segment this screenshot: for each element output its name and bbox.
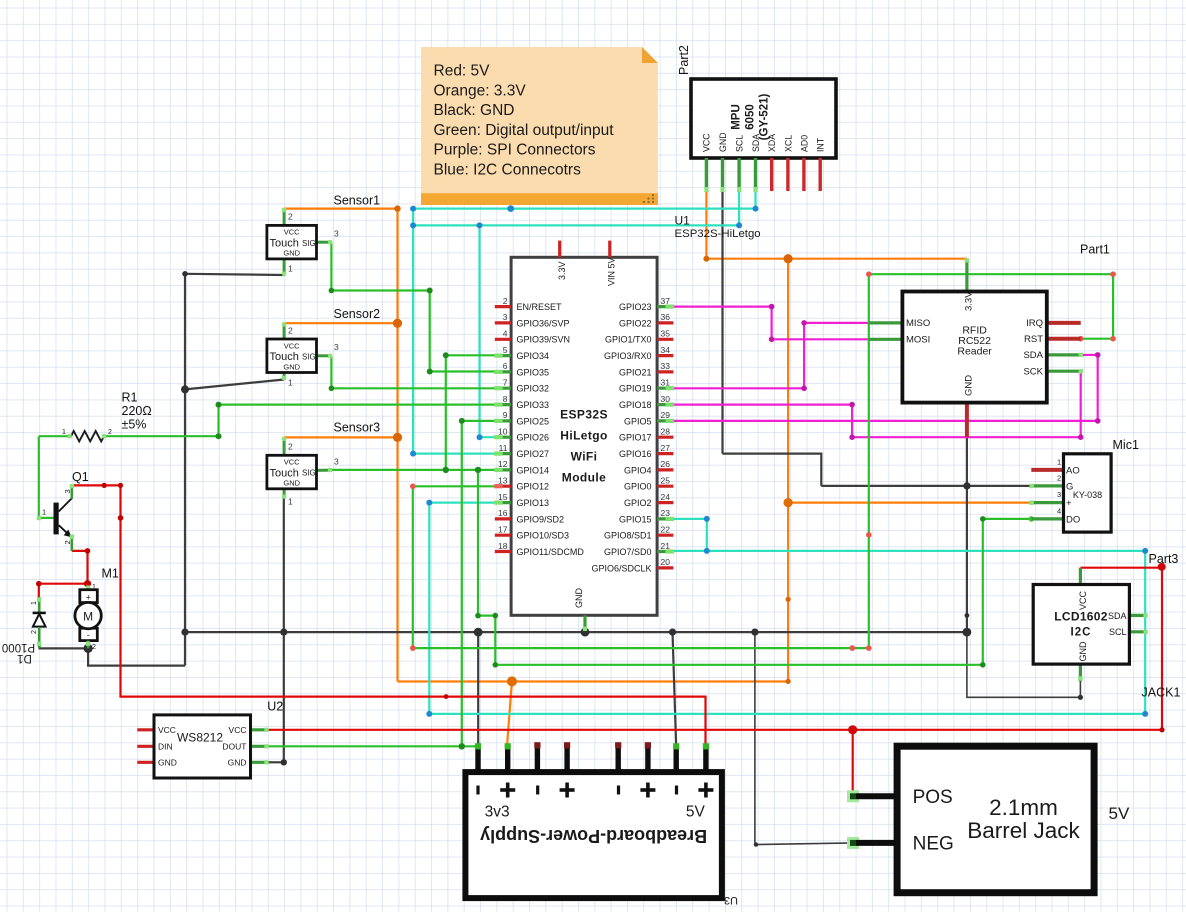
- svg-text:GPIO21: GPIO21: [619, 367, 652, 377]
- svg-text:GPIO9/SD2: GPIO9/SD2: [517, 514, 565, 524]
- svg-text:GPIO5: GPIO5: [624, 416, 652, 426]
- svg-text:33: 33: [661, 361, 671, 371]
- svg-text:P1000: P1000: [2, 641, 35, 653]
- svg-text:GPIO25: GPIO25: [517, 416, 550, 426]
- ESP32 title: [560, 408, 608, 485]
- wire black GND bus horizontal: [185, 631, 967, 633]
- wire green Mic DO vertical: [982, 519, 984, 665]
- part Mic1 KY-038: [1030, 454, 1112, 532]
- svg-text:SDA: SDA: [1023, 350, 1043, 361]
- svg-text:1: 1: [288, 378, 293, 388]
- svg-text:Green: Digital output/input: Green: Digital output/input: [434, 122, 615, 139]
- node cyan GPIO26 end: [477, 434, 483, 440]
- svg-text:8: 8: [503, 394, 508, 404]
- svg-text:Sensor2: Sensor2: [334, 307, 381, 321]
- svg-text:GND: GND: [158, 758, 177, 768]
- MPU title rotated: [731, 94, 771, 141]
- svg-text:D1: D1: [17, 652, 32, 664]
- wire green Sensor3 SIG row12: [331, 469, 496, 471]
- node black LCD gnd corner: [1078, 695, 1083, 700]
- svg-text:SCL: SCL: [1109, 627, 1127, 637]
- note sticky legend: [421, 47, 658, 205]
- svg-text:GPIO14: GPIO14: [517, 465, 550, 475]
- svg-text:ESP32S-HiLetgo: ESP32S-HiLetgo: [675, 228, 761, 240]
- node black bus junctions: [181, 629, 188, 636]
- wire orange Sensor3 VCC: [284, 436, 397, 438]
- wire black Sensor1 GND: [185, 274, 284, 275]
- node cyan H1 bends: [410, 206, 416, 212]
- svg-text:1: 1: [42, 508, 46, 517]
- svg-text:WS8212: WS8212: [177, 731, 223, 745]
- wire green RFID RST short: [1081, 338, 1113, 340]
- ESP32 right pins: [591, 296, 674, 574]
- svg-text:AO: AO: [1066, 465, 1080, 476]
- svg-text:Breadboard-Power-Supply: Breadboard-Power-Supply: [480, 826, 707, 846]
- svg-text:Red: 5V: Red: 5V: [434, 63, 491, 80]
- svg-text:GPIO35: GPIO35: [517, 367, 550, 377]
- wire green GPIO12 row13: [413, 485, 496, 487]
- MPU leg SDA pin4: [754, 158, 757, 191]
- svg-text:3.3V: 3.3V: [964, 291, 975, 311]
- svg-text:34: 34: [661, 345, 671, 355]
- node green R1 junction: [216, 402, 222, 408]
- wire green RST bottom horizontal: [413, 647, 869, 649]
- svg-text:SIG: SIG: [302, 239, 316, 248]
- svg-text:Black: GND: Black: GND: [434, 102, 515, 119]
- part MPU 6050 Part2: [691, 79, 836, 192]
- wire cyan H1 SDA horizontal: [413, 208, 755, 210]
- svg-text:31: 31: [661, 377, 671, 387]
- svg-text:Barrel Jack: Barrel Jack: [967, 818, 1080, 843]
- svg-text:2: 2: [288, 326, 293, 336]
- wire red WS8212 VCC long: [268, 729, 1162, 731]
- wire cyan row21 horizontal to LCD: [672, 550, 1145, 552]
- part Sensor1 touch: [267, 208, 339, 276]
- svg-text:5V: 5V: [1109, 804, 1130, 823]
- wire black Sensor3 GND down: [283, 499, 285, 763]
- svg-text:GPIO18: GPIO18: [619, 400, 652, 410]
- wire magenta jog down to MOSI row: [770, 307, 772, 340]
- svg-text:17: 17: [498, 524, 508, 534]
- svg-text:3: 3: [63, 489, 72, 493]
- wire red motor node to diode: [39, 584, 88, 600]
- wire cyan LCD right vertical: [1144, 551, 1146, 714]
- svg-text:2: 2: [63, 540, 72, 544]
- node red collector dots: [102, 483, 107, 488]
- svg-text:4: 4: [1057, 507, 1061, 516]
- wire magenta GPIO18 row30: [672, 404, 852, 406]
- svg-text:2: 2: [288, 212, 293, 222]
- wire magenta GPIO19 row31: [672, 387, 804, 389]
- svg-text:3: 3: [334, 229, 339, 239]
- svg-text:GND: GND: [283, 249, 300, 258]
- svg-text:MOSI: MOSI: [906, 335, 930, 346]
- svg-text:30: 30: [661, 394, 671, 404]
- svg-text:GPIO17: GPIO17: [619, 433, 652, 443]
- svg-text:±5%: ±5%: [122, 418, 147, 432]
- wire orange Sensor1 VCC: [284, 208, 397, 210]
- svg-text:GPIO32: GPIO32: [517, 384, 550, 394]
- svg-text:7: 7: [503, 377, 508, 387]
- node green sensor2 SIG bend: [329, 386, 335, 392]
- node magenta GPIO23 bend: [769, 304, 775, 310]
- wire cyan GPIO13 row: [429, 502, 496, 504]
- node cyan row21 junction: [704, 548, 710, 554]
- part LCD1602 I2C Part3: [1033, 568, 1148, 682]
- wire red jack POS drop: [852, 730, 854, 797]
- svg-text:SIG: SIG: [302, 469, 316, 478]
- wire green WS8212 DOUT row: [268, 745, 478, 747]
- svg-text:SCK: SCK: [1023, 367, 1043, 378]
- svg-text:U1: U1: [675, 214, 691, 228]
- svg-text:29: 29: [661, 410, 671, 420]
- svg-text:DIN: DIN: [158, 742, 173, 752]
- svg-text:GPIO39/SVN: GPIO39/SVN: [517, 335, 571, 345]
- svg-text:3: 3: [1057, 490, 1061, 499]
- node cyan bottom left bend: [426, 711, 432, 717]
- svg-text:GPIO15: GPIO15: [619, 514, 652, 524]
- part Breadboard-Power-Supply U3: [465, 742, 738, 906]
- node magenta SCK end: [1078, 434, 1084, 440]
- svg-text:EN/RESET: EN/RESET: [517, 302, 563, 312]
- svg-text:+: +: [1066, 498, 1072, 509]
- svg-text:27: 27: [661, 443, 671, 453]
- diode D1: [31, 597, 46, 648]
- svg-text:Orange: 3.3V: Orange: 3.3V: [434, 82, 527, 99]
- svg-text:26: 26: [661, 459, 671, 469]
- svg-text:INT: INT: [816, 137, 826, 152]
- node orange MPU VCC corner: [703, 256, 709, 262]
- wire magenta GPIO5 row29: [672, 420, 1098, 422]
- wire green GPIO34 jog: [446, 354, 496, 356]
- svg-text:-: -: [87, 630, 90, 640]
- wire magenta RFID SDA short: [1083, 354, 1098, 356]
- wire black Sensor2 GND: [185, 380, 284, 390]
- svg-text:VCC: VCC: [158, 725, 176, 735]
- svg-text:SIG: SIG: [302, 352, 316, 361]
- wire green bottom bus to Mic DO: [495, 664, 983, 666]
- svg-text:18: 18: [498, 541, 508, 551]
- node green red-endpoint dots RST net: [866, 271, 872, 277]
- wire green R1 jog up: [217, 405, 219, 437]
- node green row12 junction: [475, 467, 481, 473]
- wire green R1 to base net: [39, 435, 71, 437]
- svg-text:GPIO6/SDCLK: GPIO6/SDCLK: [591, 563, 651, 573]
- ESP32 top pin 3.3V: [558, 241, 561, 258]
- svg-text:I2C: I2C: [1071, 627, 1092, 639]
- svg-text:GPIO7/SD0: GPIO7/SD0: [604, 547, 652, 557]
- svg-text:13: 13: [498, 475, 508, 485]
- svg-text:220Ω: 220Ω: [122, 404, 152, 418]
- svg-text:GPIO8/SD1: GPIO8/SD1: [604, 531, 652, 541]
- svg-text:Part1: Part1: [1080, 243, 1110, 257]
- wire cyan H2 SCL horizontal: [413, 224, 739, 226]
- svg-text:1: 1: [1057, 458, 1061, 467]
- wire orange right vertical 3.3V: [787, 259, 789, 682]
- node orange supply branch junction: [507, 676, 517, 686]
- svg-text:R1: R1: [122, 391, 138, 405]
- svg-text:U3: U3: [724, 894, 738, 906]
- svg-text:3: 3: [334, 457, 339, 467]
- svg-text:20: 20: [661, 557, 671, 567]
- svg-text:GPIO23: GPIO23: [619, 302, 652, 312]
- svg-text:GPIO19: GPIO19: [619, 384, 652, 394]
- wire magenta jog up to RFID SDA: [1097, 355, 1099, 421]
- wire black MPU GND jog: [723, 454, 822, 486]
- svg-text:GPIO1/TX0: GPIO1/TX0: [605, 335, 652, 345]
- svg-text:Reader: Reader: [957, 346, 992, 358]
- svg-text:SDA: SDA: [1108, 611, 1127, 621]
- svg-text:Part2: Part2: [677, 45, 691, 75]
- svg-text:VCC: VCC: [1078, 590, 1088, 610]
- node green GPIO25 junction: [459, 418, 465, 424]
- svg-text:15: 15: [498, 492, 508, 502]
- wire orange to Mic plus: [788, 502, 1031, 504]
- svg-text:2: 2: [108, 429, 112, 436]
- wire orange sensor VCC bus vertical: [396, 209, 398, 682]
- svg-text:3: 3: [334, 342, 339, 352]
- wire black to Mic G: [821, 485, 1031, 487]
- wire green RST long vertical: [868, 274, 870, 648]
- svg-text:9: 9: [503, 410, 508, 420]
- wire green R1 right lead: [104, 435, 219, 437]
- svg-text:GPIO3/RX0: GPIO3/RX0: [604, 351, 652, 361]
- part WS8212 U2: [137, 715, 268, 778]
- svg-text:JACK1: JACK1: [1142, 686, 1181, 700]
- wire cyan GPIO13 down: [428, 503, 430, 714]
- ESP32 left pins: [494, 296, 584, 557]
- wire cyan GPIO15 jog down: [706, 519, 708, 551]
- MPU leg VCC pin1: [705, 158, 708, 191]
- node red Part3 corner: [1158, 563, 1166, 571]
- ESP32 top pin VIN 5V: [608, 241, 611, 258]
- svg-text:RST: RST: [1024, 334, 1043, 345]
- wire orange MPU VCC to RFID 3.3V: [706, 258, 967, 260]
- wire green vertical GPIO34-GPIO14: [445, 355, 447, 470]
- svg-text:2: 2: [92, 644, 96, 651]
- wire magenta to RFID MISO: [804, 322, 869, 324]
- wire black motor minus loop: [88, 648, 185, 665]
- wire black LCD GND up: [1079, 681, 1081, 697]
- wire red Part3 vertical: [1161, 568, 1163, 730]
- wire black diode anode to motor: [40, 646, 89, 649]
- svg-text:MISO: MISO: [906, 318, 930, 329]
- svg-text:3.3V: 3.3V: [557, 261, 567, 280]
- node orange sensor1 corner: [394, 205, 400, 211]
- wire black WS8212 GND: [268, 761, 284, 763]
- svg-text:GND: GND: [718, 132, 728, 152]
- svg-text:Q1: Q1: [72, 470, 89, 484]
- svg-text:(GY-521): (GY-521): [759, 94, 771, 141]
- svg-text:ESP32S: ESP32S: [560, 408, 608, 422]
- wire cyan GPIO27 row: [413, 453, 496, 455]
- part RFID RC522 Part1: [869, 258, 1083, 437]
- wire magenta jog down to GPIO19: [803, 323, 805, 388]
- wire green R1 left down to Q1 base: [39, 436, 54, 518]
- wire red Q1 collector net: [72, 485, 705, 750]
- svg-text:22: 22: [661, 524, 671, 534]
- wire cyan MPU SCL down: [738, 191, 740, 226]
- wire orange MPU VCC down: [705, 191, 707, 259]
- svg-text:1: 1: [288, 264, 293, 274]
- svg-text:GPIO34: GPIO34: [517, 351, 550, 361]
- wire cyan GPIO26 row: [480, 436, 497, 438]
- node magenta MISO bend: [801, 320, 807, 326]
- svg-text:GPIO10/SD3: GPIO10/SD3: [517, 531, 570, 541]
- node black sensor corners: [182, 271, 188, 277]
- MPU leg XDA unconnected: [770, 158, 773, 191]
- wire green row12 down jog: [478, 470, 495, 665]
- svg-text:25: 25: [661, 475, 671, 485]
- svg-text:Purple: SPI Connectors: Purple: SPI Connectors: [434, 142, 596, 159]
- svg-text:Sensor3: Sensor3: [334, 421, 381, 435]
- svg-text:IRQ: IRQ: [1026, 318, 1043, 329]
- node orange sensor3 junction: [393, 433, 402, 442]
- wire green RST up: [1112, 274, 1114, 339]
- svg-text:Mic1: Mic1: [1113, 438, 1139, 452]
- wire black bus to supply pin7: [673, 632, 677, 748]
- svg-text:Touch: Touch: [270, 467, 299, 479]
- node cyan LCD top bend: [1142, 548, 1148, 554]
- svg-text:21: 21: [661, 541, 671, 551]
- supply pin tips: [475, 743, 481, 749]
- wire black bus to supply pin1: [477, 632, 479, 748]
- svg-text:37: 37: [661, 296, 671, 306]
- svg-text:16: 16: [498, 508, 508, 518]
- svg-text:GND: GND: [1078, 641, 1088, 662]
- part Sensor3 touch: [267, 437, 339, 507]
- wire green GPIO12 vertical: [412, 486, 414, 648]
- wire orange bottom horizontal to 3v3: [398, 680, 789, 682]
- svg-text:VCC: VCC: [701, 133, 711, 152]
- node green jog corner dots: [475, 613, 481, 619]
- svg-text:2: 2: [288, 442, 293, 452]
- wire black RFID GND down: [966, 437, 968, 632]
- svg-text:12: 12: [498, 459, 508, 469]
- node magenta SDA bends: [1095, 352, 1101, 358]
- svg-text:POS: POS: [913, 787, 953, 808]
- svg-text:GND: GND: [283, 479, 300, 488]
- svg-text:3v3: 3v3: [485, 803, 510, 820]
- svg-text:GPIO16: GPIO16: [619, 449, 652, 459]
- svg-text:M: M: [83, 609, 93, 623]
- svg-text:GPIO0: GPIO0: [624, 482, 652, 492]
- svg-text:6: 6: [503, 361, 508, 371]
- node red Part3 bottom corner: [1159, 727, 1164, 732]
- svg-text:4: 4: [503, 329, 508, 339]
- node cyan H2 bends: [410, 222, 416, 228]
- svg-text:GPIO13: GPIO13: [517, 498, 550, 508]
- wire cyan long bottom horizontal: [429, 713, 1145, 715]
- node magenta GPIO18 bend: [849, 402, 855, 408]
- svg-text:36: 36: [661, 312, 671, 322]
- wire cyan GPIO15 row23: [672, 518, 707, 520]
- svg-text:DOUT: DOUT: [222, 742, 246, 752]
- wire magenta jog down: [851, 405, 853, 438]
- svg-text:Touch: Touch: [270, 351, 299, 363]
- supply +/- marks: [476, 786, 678, 795]
- wire red Q1 emitter to motor: [72, 551, 88, 590]
- wire green GPIO33 row8: [219, 404, 497, 406]
- svg-text:HiLetgo: HiLetgo: [560, 429, 607, 443]
- part ESP32 U1: [494, 241, 674, 631]
- svg-text:23: 23: [661, 508, 671, 518]
- resistor R1: [62, 429, 112, 441]
- wire green Sensor2 SIG route: [331, 356, 496, 389]
- svg-text:U2: U2: [267, 700, 283, 714]
- node green GPIO34 junction: [443, 352, 449, 358]
- svg-text:VIN 5V: VIN 5V: [607, 257, 617, 286]
- node orange mic plus junction: [784, 498, 793, 507]
- wire magenta RFID SCK down: [1080, 371, 1082, 437]
- svg-text:11: 11: [499, 443, 508, 453]
- node red bottom H joint: [444, 694, 449, 699]
- node orange bottom corner: [786, 679, 791, 684]
- MPU leg INT unconnected: [819, 158, 822, 191]
- ESP32 bottom pin GND: [583, 615, 586, 631]
- wire black bus to jack NEG: [755, 632, 853, 845]
- svg-text:GND: GND: [228, 758, 247, 768]
- svg-text:GPIO27: GPIO27: [517, 449, 550, 459]
- node green sensor1 SIG bends: [329, 288, 335, 294]
- node green DO corner: [980, 662, 986, 668]
- svg-text:2.1mm: 2.1mm: [989, 795, 1058, 820]
- svg-text:2: 2: [1057, 474, 1061, 483]
- wire cyan vertical B to GPIO26: [478, 225, 480, 437]
- node cyan GPIO27 bend: [410, 451, 416, 457]
- wire black left GND vertical: [184, 274, 186, 666]
- svg-text:KY-038: KY-038: [1073, 490, 1102, 500]
- svg-text:2: 2: [31, 630, 38, 634]
- svg-text:VCC: VCC: [284, 458, 300, 467]
- svg-text:VCC: VCC: [284, 228, 300, 237]
- MPU leg XCL unconnected: [786, 158, 789, 191]
- wire green Mic DO row: [983, 518, 1032, 520]
- wire black RFID GND to LCD GND: [967, 632, 1081, 697]
- MPU pin labels rotated: [701, 132, 825, 152]
- svg-text:SCL: SCL: [735, 135, 745, 152]
- node orange 3.3V junction: [784, 254, 793, 263]
- MPU leg GND pin2: [721, 158, 724, 191]
- node red WS VCC junction: [848, 725, 857, 734]
- svg-text:Blue: I2C Connecotrs: Blue: I2C Connecotrs: [434, 162, 582, 179]
- node green RST vertical bendpoint: [866, 532, 872, 538]
- wire green Sensor1 SIG route: [331, 242, 496, 371]
- wire cyan MPU SDA down: [754, 191, 756, 209]
- svg-text:GPIO26: GPIO26: [517, 433, 550, 443]
- svg-text:M1: M1: [102, 567, 119, 581]
- svg-text:XCL: XCL: [783, 135, 793, 152]
- svg-text:GND: GND: [964, 375, 975, 396]
- wire green GPIO25 vertical to DOUT: [461, 421, 463, 746]
- wire magenta to RFID SCK net: [852, 436, 1081, 438]
- svg-text:GND: GND: [574, 588, 584, 609]
- svg-text:1: 1: [92, 584, 96, 591]
- svg-text:Sensor1: Sensor1: [334, 194, 381, 208]
- node red emitter bends: [85, 548, 91, 554]
- motor M1: [75, 584, 101, 651]
- MPU leg AD0 unconnected: [802, 158, 805, 191]
- node black motor junction: [84, 644, 93, 653]
- wire orange diagonal to supply pin2: [507, 681, 512, 747]
- svg-text:NEG: NEG: [913, 833, 954, 854]
- wire black MPU GND down: [721, 191, 723, 454]
- svg-text:+: +: [86, 592, 91, 602]
- svg-text:DO: DO: [1066, 514, 1080, 525]
- node orange sensor2 junction: [393, 319, 402, 328]
- svg-text:VCC: VCC: [284, 341, 300, 350]
- svg-text:LCD1602: LCD1602: [1054, 610, 1107, 624]
